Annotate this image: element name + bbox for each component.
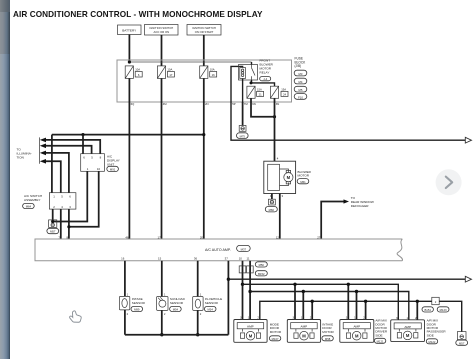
fuse F5 15A 24 <box>270 86 288 98</box>
wire 5P feed <box>231 66 243 102</box>
svg-text:M54: M54 <box>173 308 179 312</box>
intake sensor <box>119 292 129 316</box>
inline connector box pin 11 <box>247 266 254 273</box>
svg-text:(J/B): (J/B) <box>295 64 302 68</box>
svg-text:6: 6 <box>138 73 140 77</box>
ignition switch ON OR START <box>187 25 221 36</box>
svg-text:M: M <box>287 175 291 180</box>
svg-text:16: 16 <box>212 73 216 77</box>
svg-text:AMP: AMP <box>404 325 411 329</box>
svg-text:M107: M107 <box>272 337 279 341</box>
wire amp pin 10 to mode door motor pin 3 <box>242 261 244 320</box>
connector M107 <box>269 336 280 341</box>
fuse block J/B outline <box>117 60 292 102</box>
node illumination bus to 2N <box>202 133 205 136</box>
wire amp pin 11 to mode door motor pin 1 <box>249 261 251 320</box>
wire battery bus inside fuse block <box>129 61 251 63</box>
svg-text:46: 46 <box>125 236 129 240</box>
node blower feed junction <box>273 115 276 118</box>
svg-text:5: 5 <box>61 195 63 199</box>
wire arrow 4 to switch pin 5 <box>44 161 61 192</box>
blower motor <box>264 156 296 198</box>
svg-text:3: 3 <box>69 205 71 209</box>
svg-text:B152: B152 <box>258 272 265 276</box>
svg-text:4: 4 <box>61 205 63 209</box>
svg-text:1: 1 <box>53 195 55 199</box>
svg-text:ASSEMBLY: ASSEMBLY <box>24 198 40 202</box>
label air mix door motor passenger side <box>427 319 447 338</box>
wire bus D <box>260 301 462 331</box>
svg-text:IGNITION SWITCH: IGNITION SWITCH <box>192 26 216 30</box>
svg-text:MOTOR: MOTOR <box>270 330 282 334</box>
svg-text:3: 3 <box>282 194 284 198</box>
wire bus corner down to switch pin 1 <box>51 135 53 193</box>
svg-text:3N: 3N <box>276 102 280 106</box>
connector M3 <box>294 70 307 76</box>
wire arrow 2 to display pin 5 <box>44 146 92 154</box>
wire illumination bus <box>52 134 204 136</box>
connector M99 <box>131 306 143 311</box>
node sunload return <box>160 333 163 336</box>
sunload sensor <box>157 292 168 315</box>
node battery bus <box>128 60 131 63</box>
label FUSE BLOCK (J/B) <box>295 57 307 68</box>
wire fuse F3 output 2N <box>203 78 205 102</box>
air mix door motor passenger side M4 <box>391 316 425 342</box>
wire display pin 6 feed <box>82 135 84 154</box>
svg-text:2: 2 <box>200 312 202 316</box>
node illumination bus to display <box>81 133 84 136</box>
inline connector box 2 <box>432 297 439 304</box>
arrow open right <box>465 137 471 143</box>
svg-text:1: 1 <box>87 167 89 171</box>
svg-text:24: 24 <box>283 92 287 96</box>
wire fuse F5 output 3N to blower motor <box>274 98 276 161</box>
svg-text:MOTOR: MOTOR <box>322 330 334 334</box>
svg-text:6: 6 <box>69 195 71 199</box>
svg-text:3: 3 <box>242 269 244 273</box>
fuse F4 15A 21 <box>247 86 264 98</box>
wire amp pin 37 down <box>227 261 229 335</box>
connector M5 <box>294 86 307 92</box>
connector B152 <box>255 271 267 276</box>
wire switch pin 2 to ground <box>52 209 54 221</box>
connector F10 <box>294 94 307 100</box>
svg-text:10: 10 <box>97 167 101 171</box>
svg-text:4M: 4M <box>163 102 168 106</box>
svg-text:M57: M57 <box>459 341 465 345</box>
svg-text:SENSOR: SENSOR <box>170 301 184 305</box>
wire 4M down to amp pin 17 <box>161 102 163 239</box>
wire blower pin 3 to amp pin 12 <box>279 194 281 240</box>
svg-text:SENSOR: SENSOR <box>205 301 219 305</box>
in-vehicle sensor <box>193 292 203 315</box>
label TO ILLUMINATION <box>17 148 32 160</box>
wire amp pin 27 to rear window defogger <box>321 202 343 240</box>
svg-text:12: 12 <box>276 236 280 240</box>
wire sensor return bus <box>125 334 228 336</box>
svg-text:2N: 2N <box>205 102 209 106</box>
connector M91 <box>107 166 119 171</box>
A/C auto amp U1 <box>35 239 402 261</box>
svg-text:6: 6 <box>83 156 85 160</box>
svg-text:M66: M66 <box>269 208 275 212</box>
fuse F3 10A 16 <box>200 66 217 79</box>
wire amp pin 15 to sunload sensor <box>161 261 163 297</box>
wire 5P long feed to right arrow <box>231 102 465 140</box>
node 15A fuse bus <box>250 81 253 84</box>
svg-text:M64: M64 <box>26 205 32 209</box>
svg-text:ACC OR ON: ACC OR ON <box>154 30 170 34</box>
ground M57 <box>47 220 59 234</box>
node bus B start <box>241 283 244 286</box>
svg-text:RELAY: RELAY <box>260 70 270 74</box>
label A/C switch assembly <box>24 194 42 202</box>
svg-text:M50: M50 <box>259 263 265 267</box>
svg-text:F10: F10 <box>298 96 303 100</box>
connector M4 <box>294 78 307 84</box>
fuse F1 10A 6 <box>125 66 142 79</box>
svg-text:SENSOR: SENSOR <box>132 301 146 305</box>
mode door motor M1 <box>234 316 267 343</box>
svg-text:M: M <box>302 334 306 339</box>
battery B1 <box>118 25 142 35</box>
svg-text:M3: M3 <box>299 72 303 76</box>
svg-text:10A: 10A <box>135 68 140 72</box>
svg-text:17: 17 <box>158 236 162 240</box>
wire switch pin 3 to amp pin 8 <box>68 209 70 239</box>
inline connector box pin 10 <box>239 266 246 273</box>
connector M50 <box>255 262 267 267</box>
svg-text:IGNITION SWITCH: IGNITION SWITCH <box>149 26 173 30</box>
wire bus A to right arrow <box>228 278 465 280</box>
svg-text:M61: M61 <box>300 180 306 184</box>
wire display pin 10 to switch pin 3 node <box>69 171 99 227</box>
svg-text:J-4: J-4 <box>263 77 267 81</box>
node ground junction <box>51 220 54 223</box>
connector M34 <box>204 306 216 311</box>
svg-text:M: M <box>355 334 359 339</box>
wire sunload sensor to sensor return <box>161 310 163 334</box>
svg-text:4: 4 <box>277 156 279 160</box>
wire fuse F4 output 6N <box>251 98 275 116</box>
air mix door motor driver side M3 <box>340 316 374 343</box>
wire relay coil to ground 7M <box>242 79 244 103</box>
wire relay coil ground drop <box>242 102 244 126</box>
wire ACC to fuse 2 <box>161 35 163 66</box>
connector M37 <box>237 245 251 251</box>
wire bus B to intake door motor pin 3 <box>294 284 296 319</box>
wire amp pin 16 to intake sensor <box>124 261 126 297</box>
label sunload sensor <box>170 297 186 305</box>
svg-text:10A: 10A <box>167 68 172 72</box>
intake door motor M2 <box>287 316 320 343</box>
svg-text:15: 15 <box>158 257 162 261</box>
svg-text:BATTERY: BATTERY <box>122 29 136 33</box>
ignition switch ACC OR ON <box>145 25 179 36</box>
svg-text:UNIT: UNIT <box>107 162 114 166</box>
svg-text:21: 21 <box>259 92 263 96</box>
node pin3 display junction <box>67 225 70 228</box>
connector J-4 <box>260 77 271 81</box>
svg-text:27: 27 <box>317 236 321 240</box>
wire relay contact to 15A fuses <box>251 80 275 86</box>
ground M57 right <box>456 332 468 346</box>
svg-text:1: 1 <box>127 292 129 296</box>
wire arrow 1 to display pin 8 <box>44 140 100 154</box>
wire bus D to air mix passenger motor pin 2 <box>416 301 418 320</box>
arrow to rear window defogger <box>344 199 350 203</box>
svg-text:2: 2 <box>435 300 437 304</box>
connector M123 <box>437 307 449 312</box>
arrow open right bus A <box>465 276 471 282</box>
wire arrow 3 to switch pin 6 <box>44 153 69 193</box>
A/C switch assembly <box>49 193 76 209</box>
wire bus B to air mix driver motor pin 3 <box>347 284 349 319</box>
wire battery to fuse block <box>128 35 130 63</box>
wire switch pin 4 to amp pin 7 <box>60 209 62 239</box>
wire amp pin 36 to in-vehicle sensor <box>197 261 199 297</box>
connector M54 <box>170 306 182 311</box>
svg-text:17: 17 <box>169 73 173 77</box>
svg-text:M34: M34 <box>208 308 214 312</box>
label intake sensor <box>132 297 146 305</box>
svg-text:DEFOGGER: DEFOGGER <box>351 204 369 208</box>
connector B151 <box>422 307 433 312</box>
svg-text:2: 2 <box>164 312 166 316</box>
svg-text:M: M <box>249 334 253 339</box>
svg-text:2: 2 <box>53 205 55 209</box>
label blower motor <box>298 170 312 178</box>
wire fuse F1 output 6Q <box>128 78 130 102</box>
fuse F2 10A 17 <box>157 66 174 79</box>
label mode door motor <box>270 322 282 333</box>
svg-text:A/C AUTO AMP.: A/C AUTO AMP. <box>205 248 231 252</box>
svg-text:2: 2 <box>127 312 129 316</box>
node bus A start <box>227 278 230 281</box>
svg-text:M99: M99 <box>134 308 140 312</box>
wire display pin 1 to ground M57 <box>53 171 87 221</box>
svg-text:5: 5 <box>91 156 93 160</box>
svg-text:1: 1 <box>164 292 166 296</box>
connector M61 <box>297 179 309 184</box>
node bus C start <box>248 290 251 293</box>
svg-text:ON OR START: ON OR START <box>195 30 214 34</box>
svg-text:15A: 15A <box>257 87 262 91</box>
svg-text:SIDE: SIDE <box>427 333 434 337</box>
wire fuse F2 output 4M <box>161 78 163 102</box>
connector M121 <box>374 338 385 343</box>
label intake door motor <box>322 322 334 333</box>
svg-text:MOTOR: MOTOR <box>298 174 310 178</box>
svg-text:M37: M37 <box>241 247 247 251</box>
svg-text:AMP: AMP <box>247 325 254 329</box>
svg-text:M121: M121 <box>377 339 384 343</box>
svg-text:TION: TION <box>17 156 24 160</box>
wire bus C to air mix driver motor pin 1 <box>356 292 358 320</box>
svg-text:7M: 7M <box>244 102 249 106</box>
connector M64 <box>23 203 35 208</box>
wire bus D to intake door motor pin 2 <box>311 301 313 319</box>
svg-text:6Q: 6Q <box>131 102 135 106</box>
wire bus C <box>250 292 409 320</box>
label A/C display unit <box>107 155 120 167</box>
svg-text:AMP: AMP <box>353 325 360 329</box>
svg-text:SIDE: SIDE <box>375 333 382 337</box>
wire bus B <box>243 284 399 320</box>
ground M75 <box>237 126 249 139</box>
svg-text:M75: M75 <box>240 134 246 138</box>
connector M58 <box>322 336 333 341</box>
label in-vehicle sensor <box>205 297 222 305</box>
A/C display unit <box>81 154 105 172</box>
svg-text:M122: M122 <box>429 340 436 344</box>
hand cursor <box>70 311 82 322</box>
svg-text:37: 37 <box>225 257 229 261</box>
svg-text:1: 1 <box>200 292 202 296</box>
label to rear window defogger <box>351 196 374 208</box>
svg-text:M57: M57 <box>50 230 56 234</box>
wire bus D to air mix driver motor pin 2 <box>365 301 367 319</box>
label air mix door motor driver side <box>375 319 387 338</box>
svg-text:36: 36 <box>194 257 198 261</box>
wire 2N down to amp pin 20 <box>203 102 205 239</box>
svg-text:M: M <box>406 333 410 338</box>
svg-text:M91: M91 <box>110 168 116 172</box>
wire ON to fuse 3 <box>203 35 205 66</box>
svg-text:AMP: AMP <box>301 325 308 329</box>
svg-text:10: 10 <box>239 257 243 261</box>
ground M66 <box>265 199 277 212</box>
svg-text:16: 16 <box>121 257 125 261</box>
label front blower motor relay <box>260 59 274 75</box>
svg-text:11: 11 <box>247 257 250 261</box>
svg-text:M4: M4 <box>299 80 303 84</box>
node in-vehicle return <box>196 333 199 336</box>
wire 6Q down to amp pin 46 <box>128 102 130 239</box>
svg-text:10A: 10A <box>210 68 215 72</box>
wire bus C to intake door motor pin 1 <box>302 292 304 320</box>
svg-text:5P: 5P <box>232 102 236 106</box>
svg-text:6N: 6N <box>252 102 256 106</box>
svg-text:B151: B151 <box>424 308 431 312</box>
illumination bracket <box>39 137 41 163</box>
relay K1 front blower motor relay <box>239 65 258 81</box>
svg-text:M123: M123 <box>440 308 447 312</box>
svg-text:20: 20 <box>200 236 204 240</box>
svg-text:M58: M58 <box>325 337 331 341</box>
wire blower pin 1 to ground <box>271 194 273 200</box>
svg-text:M5: M5 <box>299 88 303 92</box>
wire in-vehicle sensor to sensor return <box>197 310 199 334</box>
connector M122 <box>426 339 437 344</box>
wire relay contact from battery bus <box>251 62 253 65</box>
svg-text:15A: 15A <box>281 87 286 91</box>
svg-text:8: 8 <box>100 156 102 160</box>
next page button <box>436 169 462 195</box>
wire intake sensor to sensor return <box>124 310 126 335</box>
